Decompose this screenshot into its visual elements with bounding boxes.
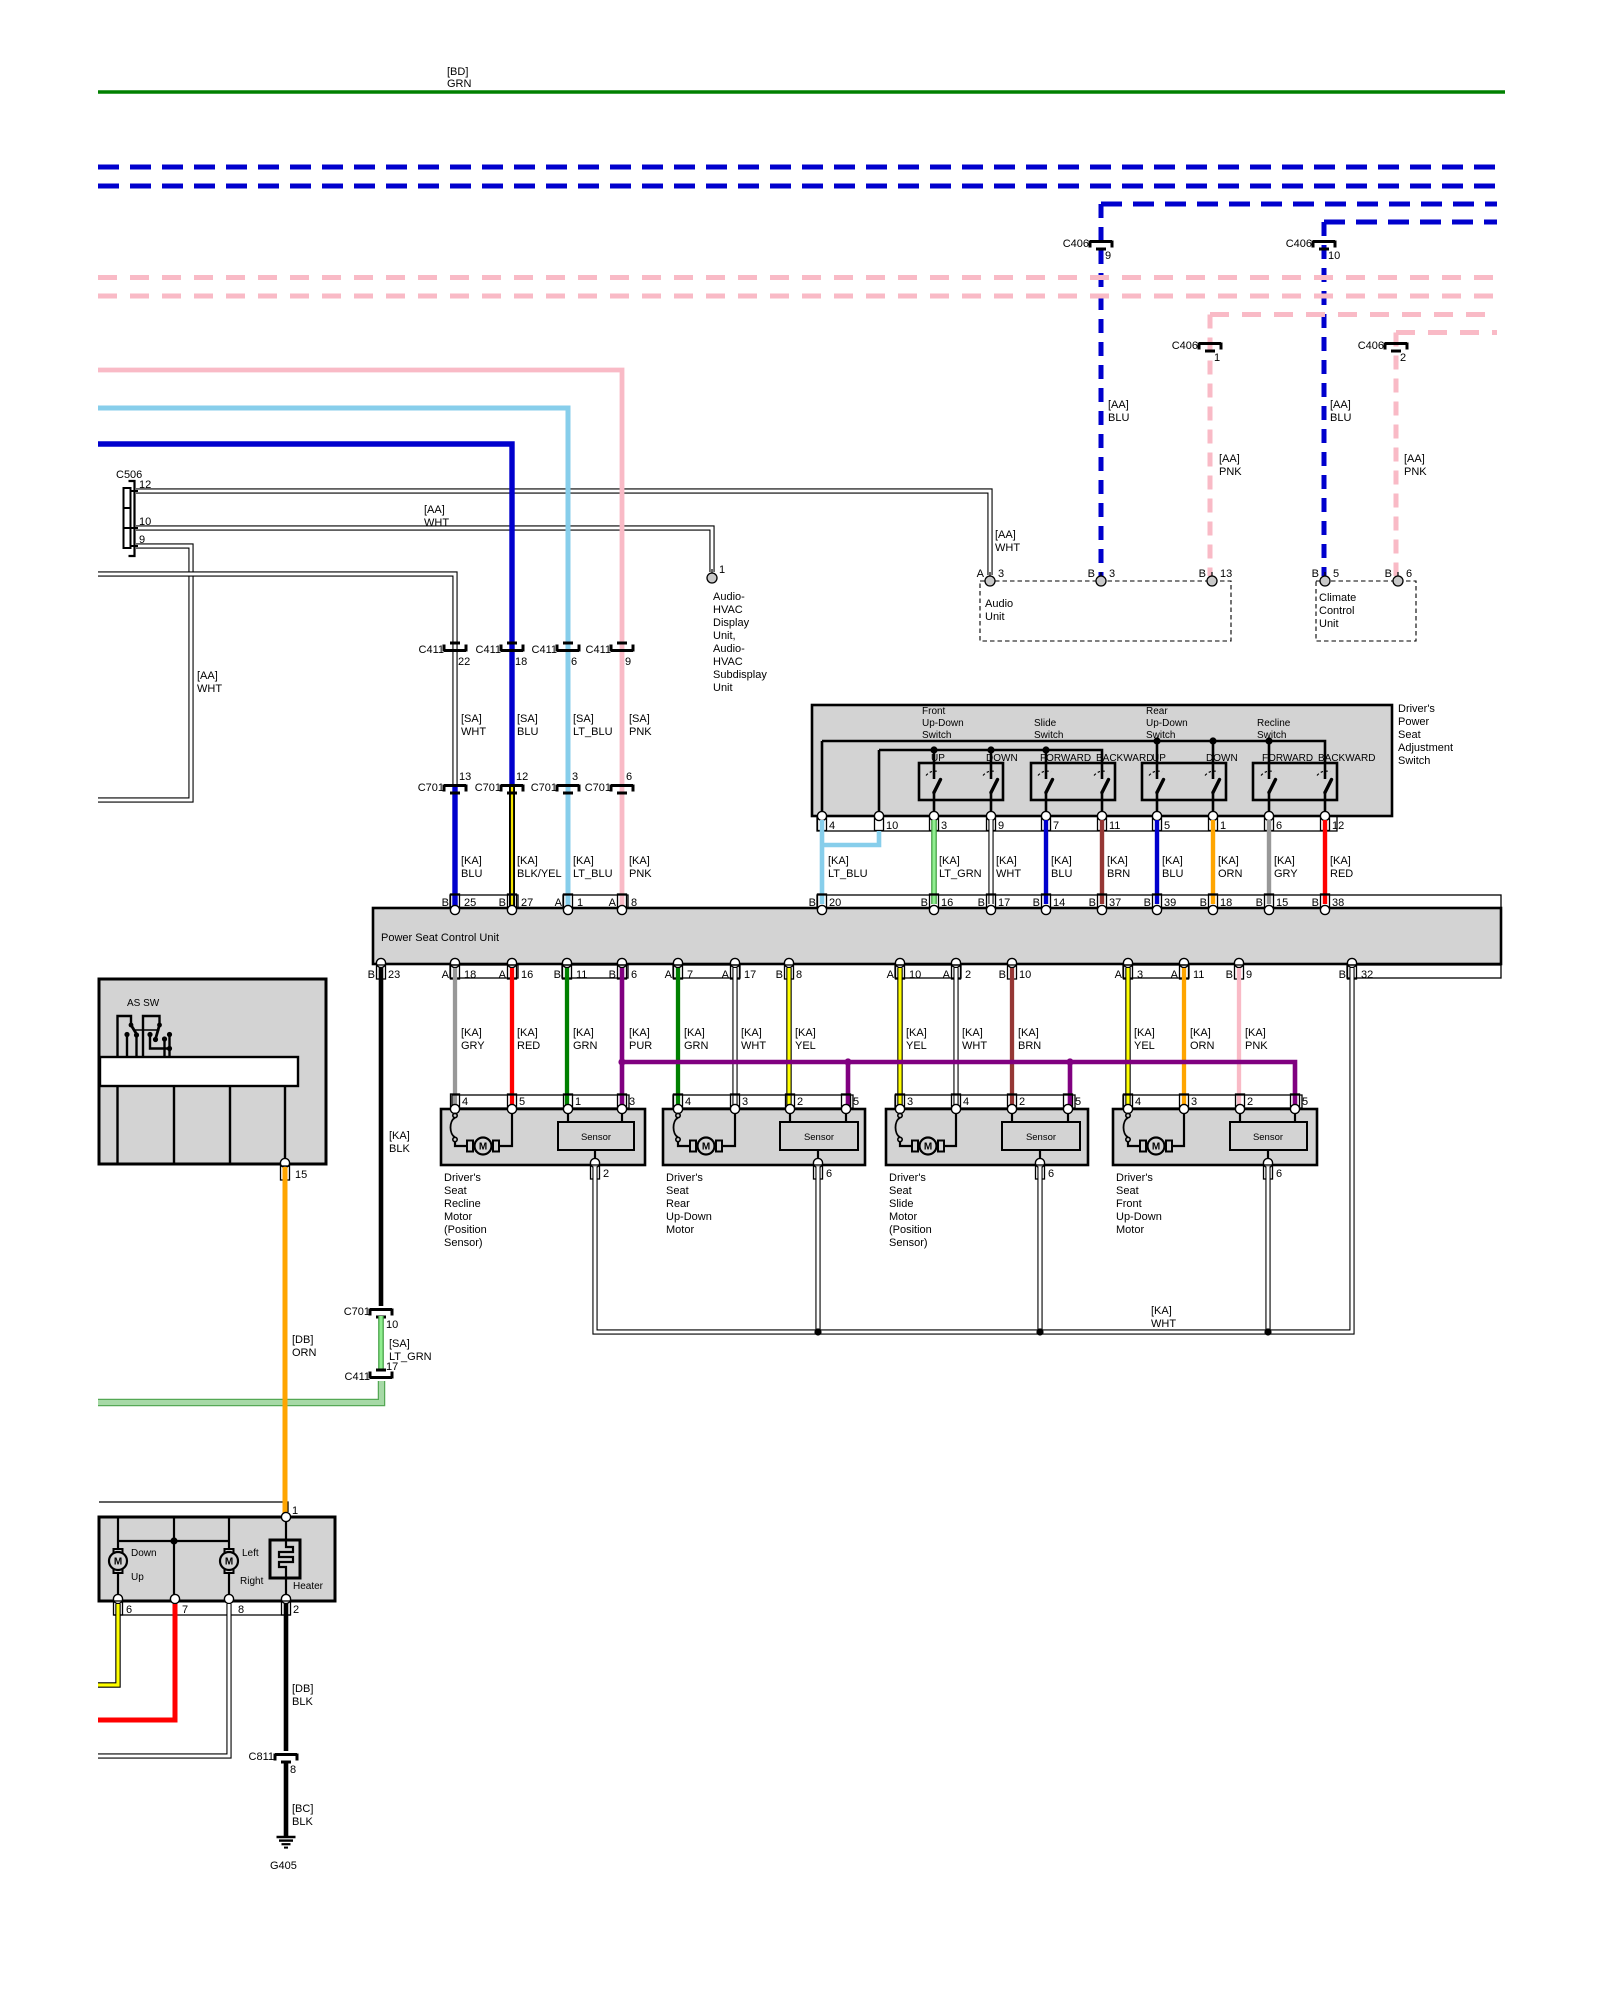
svg-text:DOWN: DOWN [986, 753, 1018, 764]
sensor pin 6 [1267, 1150, 1269, 1159]
svg-text:BLK/YEL: BLK/YEL [517, 868, 562, 880]
svg-text:BACKWARD: BACKWARD [1318, 753, 1375, 764]
junction dots purple bus [618, 1058, 625, 1065]
wire [KA] YEL B8 to rear motor pin2 [786, 968, 791, 1107]
wire pin10 riser [878, 750, 881, 816]
svg-text:10: 10 [386, 1319, 398, 1331]
svg-text:[KA]: [KA] [517, 1027, 538, 1039]
bottom pin B8 [785, 965, 794, 979]
wire CAN blue dashed bus 1 [98, 165, 1497, 170]
wire arc to motor [678, 1141, 690, 1146]
MOTOR1 recline [441, 1094, 645, 1249]
svg-text:WHT: WHT [424, 517, 449, 529]
internal wires below bar [116, 1086, 118, 1163]
pin bracket row of switch [817, 816, 1337, 831]
svg-text:Audio: Audio [985, 598, 1013, 610]
svg-text:5: 5 [1302, 1096, 1308, 1108]
svg-text:Climate: Climate [1319, 592, 1356, 604]
bottom bracket A10 A2 [895, 965, 961, 978]
wire pin4 riser [821, 741, 824, 816]
wire WHT pin8 to left edge [98, 1604, 229, 1756]
svg-text:1: 1 [1220, 820, 1226, 832]
svg-text:A: A [665, 969, 673, 981]
svg-text:4: 4 [462, 1096, 468, 1108]
label Slide Switch [1034, 718, 1063, 741]
pin boxes and numbers 4,10,3,9,7,11,5,1,6,12 [818, 817, 1345, 833]
svg-text:[BC]: [BC] [292, 1803, 313, 1815]
svg-text:5: 5 [519, 1096, 525, 1108]
bottom pin bracket [114, 1614, 291, 1616]
svg-text:Driver's: Driver's [1398, 703, 1435, 715]
svg-text:11: 11 [1193, 969, 1204, 981]
wire LT_BLU from left edge to PSCU A1 [98, 408, 568, 906]
bottom pin B10 [1008, 965, 1017, 979]
svg-text:3: 3 [1137, 969, 1143, 981]
svg-text:Unit: Unit [985, 611, 1005, 623]
svg-text:Unit: Unit [1319, 618, 1339, 630]
connector C811 pin 8 [249, 1751, 297, 1776]
svg-text:32: 32 [1361, 969, 1373, 981]
svg-text:BLK: BLK [292, 1816, 313, 1828]
junction dots white bus [814, 1328, 821, 1335]
wire [KA] BLU pin5 to B39 [1155, 820, 1159, 904]
position sensor arc [674, 1113, 681, 1141]
junction dots on H1 [1153, 737, 1160, 744]
svg-text:ORN: ORN [1190, 1040, 1215, 1052]
pin bracket recline motor [452, 1095, 629, 1108]
svg-text:RED: RED [1330, 868, 1353, 880]
svg-text:[SA]: [SA] [629, 713, 650, 725]
svg-text:23: 23 [388, 969, 400, 981]
svg-text:Switch: Switch [1146, 730, 1175, 741]
svg-text:B: B [1088, 568, 1095, 580]
svg-text:WHT: WHT [197, 683, 222, 695]
svg-text:C406: C406 [1358, 340, 1384, 352]
svg-text:BLU: BLU [1330, 412, 1351, 424]
svg-text:14: 14 [1053, 897, 1065, 909]
terminal B13 Audio Unit [1207, 572, 1217, 586]
wire PNK from left edge to PSCU A8 [98, 370, 622, 906]
svg-text:Power: Power [1398, 716, 1430, 728]
connector C701 pin 10 [344, 1306, 399, 1331]
ground G405 [277, 1837, 296, 1848]
bottom bracket A7 A17 [673, 965, 740, 978]
sensor box [1239, 1113, 1241, 1122]
svg-text:[SA]: [SA] [517, 713, 538, 725]
wire RED pin7 to left edge [98, 1604, 175, 1720]
svg-text:B: B [1089, 897, 1096, 909]
svg-text:[KA]: [KA] [629, 855, 650, 867]
wire CAN blue dashed bus 2 [98, 184, 1497, 189]
svg-text:C411: C411 [476, 644, 501, 656]
svg-text:Subdisplay: Subdisplay [713, 669, 767, 681]
bottom bracket B32 [1347, 965, 1501, 978]
svg-text:C411: C411 [345, 1371, 370, 1383]
wire [KA] YEL A10 to slide motor pin3 [897, 968, 902, 1107]
svg-text:[KA]: [KA] [996, 855, 1017, 867]
sensor box [789, 1113, 791, 1122]
connector C406 pin 2 [1358, 340, 1407, 364]
wire blue dashed branch to C406-9 [1101, 202, 1497, 207]
svg-text:A: A [442, 969, 450, 981]
svg-text:8: 8 [631, 897, 637, 909]
svg-text:12: 12 [139, 479, 151, 491]
svg-text:C701: C701 [585, 782, 611, 794]
connector C406 pin 1 [1172, 340, 1221, 364]
svg-text:Seat: Seat [1398, 729, 1421, 741]
svg-text:6: 6 [631, 969, 637, 981]
svg-text:7: 7 [687, 969, 693, 981]
svg-text:PNK: PNK [629, 868, 652, 880]
switch A symbol [118, 1016, 132, 1058]
svg-text:Up-Down: Up-Down [1116, 1211, 1162, 1223]
label Front Up-Down Switch [922, 706, 964, 741]
svg-text:6: 6 [571, 656, 577, 668]
box AS SW [99, 979, 326, 1164]
svg-text:B: B [1339, 969, 1346, 981]
wire motor to pin3 [722, 1113, 735, 1146]
wire C506-12 to Audio Unit A3 [AA] WHT [136, 491, 990, 575]
sensor pin 2 [594, 1150, 596, 1159]
contact DOWN [983, 771, 998, 816]
bottom pin circles [113, 1594, 122, 1603]
pin bracket slide motor [895, 1095, 1075, 1108]
wire [KA] WHT A17 to rear motor pin3 [732, 968, 737, 1107]
svg-text:BLU: BLU [517, 726, 538, 738]
svg-text:[BD]: [BD] [447, 66, 468, 78]
wire [KA] GRN A7 to rear motor pin4 [676, 968, 680, 1107]
svg-text:B: B [1200, 897, 1207, 909]
svg-text:4: 4 [685, 1096, 691, 1108]
svg-text:6: 6 [1048, 1168, 1054, 1180]
bottom bracket A18 A16 [450, 965, 518, 978]
motor M slide [912, 1138, 944, 1155]
box Driver's Power Seat Adjustment Switch [812, 705, 1392, 816]
svg-text:WHT: WHT [962, 1040, 987, 1052]
junction dots on H2 [930, 746, 937, 753]
pin circles on switch box bottom edge [817, 811, 1329, 820]
position sensor arc [451, 1113, 458, 1141]
svg-text:BLU: BLU [461, 868, 482, 880]
motor M rear [690, 1138, 722, 1155]
wire [KA] LT_GRN pin3 to B16 [931, 820, 937, 904]
label Rear Up-Down Switch [1146, 706, 1188, 741]
svg-text:15: 15 [1276, 897, 1288, 909]
svg-text:[AA]: [AA] [995, 529, 1016, 541]
wire arc to motor [1128, 1141, 1140, 1146]
SECTION: vertical harness columns [98, 370, 652, 906]
svg-text:2: 2 [603, 1168, 609, 1180]
connector C411 pin 18 [476, 643, 528, 668]
svg-text:[AA]: [AA] [1219, 453, 1240, 465]
bottom bracket B11 B6 [562, 965, 628, 978]
svg-text:Recline: Recline [444, 1198, 481, 1210]
svg-text:Right: Right [240, 1576, 264, 1587]
wire pink dashed branch to C406-2 [1396, 330, 1497, 335]
svg-text:[KA]: [KA] [1134, 1027, 1155, 1039]
svg-text:15: 15 [295, 1169, 307, 1181]
svg-text:Down: Down [131, 1548, 157, 1559]
svg-text:2: 2 [293, 1604, 299, 1616]
svg-text:13: 13 [459, 771, 471, 783]
svg-text:[DB]: [DB] [292, 1683, 313, 1695]
svg-text:B: B [1033, 897, 1040, 909]
svg-text:AS SW: AS SW [127, 998, 160, 1009]
svg-text:10: 10 [139, 516, 151, 528]
svg-text:[KA]: [KA] [1018, 1027, 1039, 1039]
svg-text:LT_BLU: LT_BLU [573, 726, 613, 738]
svg-text:BRN: BRN [1107, 868, 1130, 880]
svg-text:[KA]: [KA] [1107, 855, 1128, 867]
svg-text:A: A [609, 897, 617, 909]
svg-text:UP: UP [931, 753, 945, 764]
svg-text:2: 2 [965, 969, 971, 981]
svg-text:[AA]: [AA] [197, 670, 218, 682]
svg-text:GRN: GRN [684, 1040, 709, 1052]
svg-text:37: 37 [1109, 897, 1121, 909]
svg-text:(Position: (Position [889, 1224, 932, 1236]
svg-text:2: 2 [1247, 1096, 1253, 1108]
SECTION: power seat control unit [368, 894, 1501, 981]
svg-text:7: 7 [182, 1604, 188, 1616]
connector C701 pin 6 [585, 771, 633, 794]
svg-text:27: 27 [521, 897, 533, 909]
svg-text:12: 12 [1332, 820, 1344, 832]
svg-text:9: 9 [1105, 250, 1111, 262]
bottom bracket A3 A11 [1123, 965, 1189, 978]
svg-text:A: A [722, 969, 730, 981]
svg-text:YEL: YEL [795, 1040, 816, 1052]
svg-text:B: B [1385, 568, 1392, 580]
svg-text:10: 10 [886, 820, 898, 832]
wire [KA] GRN B11 to recline motor pin1 [565, 968, 569, 1107]
pin circles [673, 1104, 682, 1113]
svg-text:Front: Front [1116, 1198, 1142, 1210]
connector C411 pin 9 [586, 643, 633, 668]
svg-text:[KA]: [KA] [1190, 1027, 1211, 1039]
wire [KA] RED pin12 to B38 [1323, 820, 1327, 904]
wire motor to pin5 [499, 1113, 512, 1146]
MOTOR4 front [1113, 1094, 1317, 1236]
svg-text:B: B [554, 969, 561, 981]
svg-text:18: 18 [515, 656, 527, 668]
bottom pin circles [376, 958, 1356, 967]
svg-text:17: 17 [386, 1361, 398, 1373]
connector C701 pin 13 [418, 771, 472, 794]
svg-text:8: 8 [290, 1764, 296, 1776]
svg-text:[AA]: [AA] [1404, 453, 1425, 465]
wire [KA] PUR B6 to motors pin5 bus [620, 968, 625, 1107]
svg-text:8: 8 [238, 1604, 244, 1616]
svg-text:Rear: Rear [1146, 706, 1168, 717]
wire motor to pin4 [944, 1113, 956, 1146]
svg-text:6: 6 [126, 1604, 132, 1616]
svg-text:[KA]: [KA] [1245, 1027, 1266, 1039]
svg-text:(Position: (Position [444, 1224, 487, 1236]
svg-text:C701: C701 [475, 782, 501, 794]
sensor box [1011, 1113, 1013, 1122]
svg-text:Control: Control [1319, 605, 1354, 617]
svg-text:B: B [776, 969, 783, 981]
svg-text:[KA]: [KA] [1051, 855, 1072, 867]
connector C411 pin 17 [345, 1361, 399, 1383]
wire LT_GRN C411-17 to left edge [98, 1381, 382, 1403]
svg-text:B: B [442, 897, 449, 909]
svg-text:GRY: GRY [461, 1040, 485, 1052]
svg-text:C411: C411 [419, 644, 444, 656]
terminal 1 Audio-HVAC Display Unit [707, 569, 717, 583]
svg-text:LT_GRN: LT_GRN [939, 868, 982, 880]
svg-text:9: 9 [1246, 969, 1252, 981]
svg-text:[KA]: [KA] [962, 1027, 983, 1039]
terminal A3 Audio Unit [985, 572, 995, 586]
svg-text:1: 1 [292, 1505, 298, 1517]
wire [DB] ORN pin15 to heater unit pin 1 [283, 1167, 288, 1513]
SECTION: motors [441, 968, 1352, 1336]
svg-text:3: 3 [1191, 1096, 1197, 1108]
position sensor arc [896, 1113, 903, 1141]
svg-text:1: 1 [577, 897, 583, 909]
heater element [285, 1521, 287, 1540]
svg-text:WHT: WHT [1151, 1318, 1176, 1330]
svg-text:3: 3 [742, 1096, 748, 1108]
terminal B5 Climate Control Unit [1320, 572, 1330, 586]
svg-text:B: B [1312, 897, 1319, 909]
wire contact drops from H1 [1156, 741, 1159, 779]
SECTION: bottom left box [98, 1167, 335, 1872]
svg-text:Sensor): Sensor) [444, 1237, 483, 1249]
contact DOWN rear [1205, 771, 1220, 816]
svg-text:HVAC: HVAC [713, 604, 743, 616]
top bracket B20..B38 [817, 895, 1501, 908]
svg-text:Sensor: Sensor [804, 1132, 834, 1143]
wire [KA] RED A16 to recline motor pin5 [510, 968, 514, 1107]
svg-text:Recline: Recline [1257, 718, 1291, 729]
pin 1 circle [281, 1512, 290, 1521]
svg-text:Sensor: Sensor [1026, 1132, 1056, 1143]
box Driver's Seat Slide Motor [886, 1109, 1088, 1165]
svg-text:ORN: ORN [1218, 868, 1243, 880]
svg-text:10: 10 [909, 969, 921, 981]
svg-text:Driver's: Driver's [1116, 1172, 1153, 1184]
top pin circles [450, 905, 1329, 914]
svg-text:Sensor): Sensor) [889, 1237, 928, 1249]
motor M up-down [109, 1549, 127, 1573]
svg-text:PNK: PNK [1245, 1040, 1268, 1052]
svg-text:Left: Left [242, 1548, 259, 1559]
label Driver's Seat Front Up-Down Motor [1116, 1172, 1162, 1236]
svg-text:B: B [609, 969, 616, 981]
svg-text:Audio-: Audio- [713, 643, 745, 655]
svg-text:Motor: Motor [666, 1224, 694, 1236]
svg-text:Display: Display [713, 617, 750, 629]
svg-text:PNK: PNK [629, 726, 652, 738]
svg-text:B: B [1199, 568, 1206, 580]
connector C701 pin 12 [475, 771, 529, 794]
svg-text:WHT: WHT [996, 868, 1021, 880]
wire [KA] BRN pin11 to B37 [1100, 820, 1104, 904]
label Driver's Seat Slide Motor (Position Sensor) [889, 1172, 932, 1249]
connector bar inside AS SW [100, 1057, 298, 1086]
position sensor arc [1124, 1113, 1131, 1141]
svg-text:Up-Down: Up-Down [1146, 718, 1188, 729]
svg-text:BACKWARD: BACKWARD [1096, 753, 1153, 764]
contact UP rear [1149, 771, 1164, 816]
svg-text:C701: C701 [418, 782, 444, 794]
svg-text:38: 38 [1332, 897, 1344, 909]
svg-text:GRY: GRY [1274, 868, 1298, 880]
wire [KA] ORN A11 to front motor pin3 [1182, 968, 1186, 1107]
wire motor to pin3 [1172, 1113, 1184, 1146]
svg-text:FORWARD: FORWARD [1262, 753, 1313, 764]
svg-text:10: 10 [1019, 969, 1031, 981]
svg-text:C406: C406 [1172, 340, 1198, 352]
wire [KA] BLU pin7 to B14 [1044, 820, 1048, 904]
connector C506 [116, 469, 142, 556]
svg-text:18: 18 [1220, 897, 1232, 909]
motor M left-right [220, 1549, 238, 1573]
pin bracket rear motor [673, 1095, 853, 1108]
svg-text:[KA]: [KA] [389, 1130, 410, 1142]
wire bus H1 to rear/recline switches [822, 741, 1325, 779]
svg-text:PUR: PUR [629, 1040, 652, 1052]
svg-text:[KA]: [KA] [906, 1027, 927, 1039]
svg-text:Seat: Seat [444, 1185, 467, 1197]
wire arc to motor [455, 1141, 467, 1146]
wire [KA] BLK/YEL C701-12 to PSCU B27 [509, 787, 515, 906]
svg-text:12: 12 [516, 771, 528, 783]
svg-text:1: 1 [1214, 352, 1220, 364]
svg-text:[AA]: [AA] [1330, 399, 1351, 411]
svg-text:Slide: Slide [1034, 718, 1057, 729]
svg-text:Audio-: Audio- [713, 591, 745, 603]
contact BACKWARD recline [1317, 771, 1332, 816]
label Driver's Seat Recline Motor (Position Sensor) [444, 1172, 487, 1249]
svg-text:WHT: WHT [461, 726, 486, 738]
svg-text:Driver's: Driver's [666, 1172, 703, 1184]
box Power Seat Control Unit [373, 908, 1501, 964]
label Driver's Seat Rear Up-Down Motor [666, 1172, 712, 1236]
svg-text:C406: C406 [1063, 238, 1089, 250]
wire YEL pin6 to left edge [98, 1604, 118, 1685]
MOTOR2 rear [663, 1094, 865, 1236]
svg-text:[KA]: [KA] [741, 1027, 762, 1039]
svg-text:BLU: BLU [1051, 868, 1072, 880]
svg-text:1: 1 [575, 1096, 581, 1108]
svg-text:A: A [499, 969, 507, 981]
svg-text:HVAC: HVAC [713, 656, 743, 668]
SECTION: top power/bus lines [98, 66, 1505, 576]
svg-text:UP: UP [1152, 753, 1166, 764]
svg-text:C701: C701 [344, 1306, 370, 1318]
svg-text:A: A [943, 969, 951, 981]
svg-text:6: 6 [1276, 820, 1282, 832]
wire bus H2 to front/slide switches [879, 750, 1102, 779]
svg-text:B: B [921, 897, 928, 909]
svg-text:[DB]: [DB] [292, 1334, 313, 1346]
svg-text:[KA]: [KA] [1162, 855, 1183, 867]
svg-text:4: 4 [829, 820, 835, 832]
svg-text:2: 2 [1019, 1096, 1025, 1108]
label Audio-HVAC Display Unit / Subdisplay Unit [713, 591, 767, 694]
SECTION: c506 and white wires [98, 469, 1020, 800]
terminal B6 Climate Control Unit [1393, 572, 1403, 586]
svg-text:7: 7 [1053, 820, 1059, 832]
svg-text:Sensor: Sensor [581, 1132, 611, 1143]
svg-text:3: 3 [941, 820, 947, 832]
svg-text:A: A [887, 969, 895, 981]
svg-text:Up-Down: Up-Down [666, 1211, 712, 1223]
